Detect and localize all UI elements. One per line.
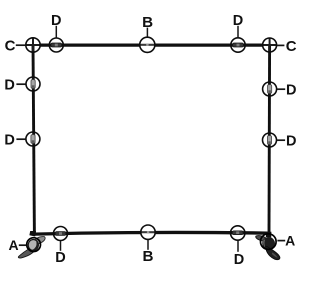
joint sleeve bottom B — [141, 230, 155, 235]
corner cross top-right — [263, 38, 277, 52]
svg-text:D: D — [286, 134, 296, 150]
svg-text:D: D — [286, 82, 296, 98]
callout circle right D1 — [263, 82, 277, 96]
leader D bottom-left — [60, 241, 62, 251]
joint sleeve left D2 — [31, 135, 35, 144]
callout circle corner top-left — [26, 38, 40, 52]
joint sleeve right D1 — [268, 85, 272, 94]
leader D bottom-right — [237, 241, 239, 252]
label D bottom-right — [234, 252, 244, 268]
svg-text:D: D — [4, 133, 14, 149]
label D right2 — [286, 134, 296, 150]
joint sleeve top-left D — [51, 43, 62, 47]
label C left — [5, 37, 16, 54]
label C right — [286, 38, 297, 55]
label D left1 — [4, 78, 14, 94]
leader D right2 — [277, 139, 285, 141]
callout circle top B — [140, 37, 155, 52]
callout circle left D2 — [26, 132, 40, 146]
foot left — [18, 231, 45, 258]
label B top — [142, 14, 153, 31]
label D top-left — [51, 13, 61, 29]
leader D left1 — [16, 83, 25, 85]
callout circle corner top-right — [263, 38, 277, 52]
joint sleeve top B — [141, 42, 155, 47]
leader B top — [146, 28, 148, 37]
svg-text:D: D — [4, 78, 14, 94]
callout circle bottom-left D — [54, 227, 68, 241]
callout circle foot left (A) — [27, 238, 41, 252]
leader D right1 — [277, 88, 285, 90]
leader C left — [16, 44, 25, 46]
svg-text:A: A — [285, 233, 295, 249]
joint sleeve right D2 — [267, 136, 271, 145]
crossbar bottom — [35, 232, 267, 234]
svg-text:D: D — [51, 13, 61, 29]
svg-text:D: D — [233, 13, 243, 29]
svg-text:A: A — [9, 237, 19, 253]
label A left — [9, 237, 19, 253]
foot right — [256, 232, 280, 260]
callout circle bottom-right D — [231, 226, 245, 240]
callout circle left D1 — [26, 77, 40, 91]
leader D top-left — [55, 26, 57, 38]
svg-text:C: C — [286, 38, 297, 55]
pole right — [268, 45, 272, 234]
svg-text:B: B — [142, 14, 153, 31]
leader A left — [19, 244, 27, 246]
label A right — [285, 233, 295, 249]
svg-text:D: D — [234, 252, 244, 268]
joint sleeve top-right D — [233, 43, 244, 47]
label D top-right — [233, 13, 243, 29]
callout circle bottom B — [141, 225, 155, 239]
corner cross top-left — [26, 38, 40, 52]
joint sleeve left D1 — [31, 80, 35, 89]
callout circle top-left D — [49, 38, 63, 52]
callout circle top-right D — [231, 38, 245, 52]
svg-text:D: D — [55, 250, 65, 266]
leader D top-right — [237, 26, 239, 38]
joint sleeve bottom-right D — [232, 231, 243, 235]
label D bottom-left — [55, 250, 65, 266]
label B bottom — [143, 248, 154, 265]
leader A right — [277, 240, 285, 242]
label D left2 — [4, 133, 14, 149]
leader C right — [277, 44, 284, 46]
callout circle foot right (A) — [261, 234, 277, 250]
joint sleeve bottom-left D — [55, 232, 66, 236]
callout circle right D2 — [263, 133, 277, 147]
pole left — [33, 45, 34, 234]
svg-text:B: B — [143, 248, 154, 265]
svg-text:C: C — [5, 37, 16, 54]
leader D left2 — [16, 138, 25, 140]
label D right1 — [286, 82, 296, 98]
crossbar top — [40, 43, 264, 46]
leader B bottom — [147, 240, 149, 250]
